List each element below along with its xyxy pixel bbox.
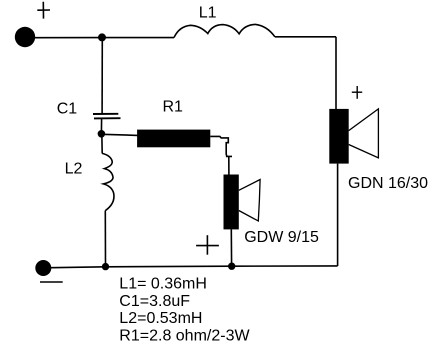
bottom wire <box>51 266 338 268</box>
svg-text:C1: C1 <box>57 101 78 118</box>
svg-text:L2: L2 <box>65 161 83 178</box>
minus sign <box>40 281 63 283</box>
wire top from + terminal to node A <box>34 37 102 39</box>
svg-text:R1: R1 <box>163 99 184 116</box>
node A junction dot <box>98 33 106 41</box>
wire R1 to GDW speaker (hand-drawn kinks) <box>210 136 232 174</box>
minus terminal (filled circle) <box>35 260 51 276</box>
svg-text:GDN 16/30: GDN 16/30 <box>348 175 428 192</box>
wire down to GDN speaker <box>335 37 337 109</box>
wire node A to L1 <box>102 37 174 39</box>
wire node B down to L2 <box>101 138 103 154</box>
svg-text:R1=2.8 ohm/2-3W: R1=2.8 ohm/2-3W <box>119 327 250 344</box>
node D junction dot <box>228 263 235 270</box>
wire node B to R1 <box>101 134 137 135</box>
plus sign at GDW speaker <box>196 235 219 255</box>
capacitor C1 <box>93 114 121 119</box>
node C junction dot <box>102 263 109 270</box>
speaker GDN 16/30 body <box>329 109 348 164</box>
speaker GDW 9/15 cone <box>239 180 260 222</box>
inductor L2 <box>102 153 114 210</box>
wire from node A down to C1 <box>101 38 103 114</box>
wire C1 to node B <box>100 118 102 133</box>
speaker GDN 16/30 cone <box>349 109 379 158</box>
plus terminal symbol top-left <box>37 2 50 19</box>
inductor L1 <box>174 24 275 37</box>
node B junction dot <box>98 130 106 138</box>
input terminal + (filled circle) <box>15 27 35 47</box>
resistor R1 <box>137 130 210 148</box>
wire L2 bottom to node C <box>104 211 106 267</box>
wire GDN bottom down <box>337 164 339 266</box>
plus sign at GDN speaker <box>352 86 362 99</box>
svg-text:GDW 9/15: GDW 9/15 <box>244 229 319 246</box>
wire GDW bottom to node D <box>230 229 232 266</box>
wire L1 to top-right corner <box>275 36 336 38</box>
speaker GDW 9/15 body <box>224 175 239 230</box>
svg-text:L1= 0.36mH: L1= 0.36mH <box>119 276 207 293</box>
svg-text:C1=3.8uF: C1=3.8uF <box>119 293 190 310</box>
svg-text:L1: L1 <box>199 5 217 22</box>
svg-text:L2=0.53mH: L2=0.53mH <box>119 310 202 327</box>
